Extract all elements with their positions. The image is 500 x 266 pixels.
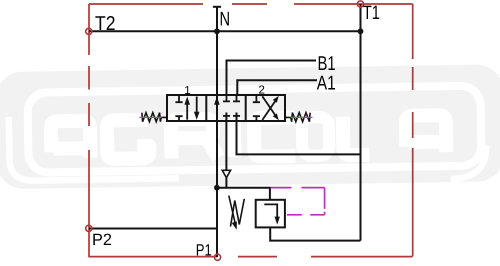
wire A work line below valve — [225, 113, 227, 188]
position 1 down arrow — [196, 97, 198, 114]
centre position blocked B top — [233, 95, 240, 101]
position 1 up arrow — [186, 103, 188, 120]
centre position blocked B bottom — [233, 115, 240, 117]
position 1 blocked port bottom — [175, 116, 182, 120]
port T1 marker — [357, 1, 363, 7]
relief valve RV1 spring — [231, 199, 245, 227]
port P1 marker — [214, 254, 220, 260]
svg-text:P2: P2 — [92, 231, 112, 249]
pilot line bottom dashes — [287, 214, 325, 216]
junction at T1 — [358, 28, 364, 34]
valve V1 divider right — [245, 95, 247, 121]
red enclosure border top — [89, 3, 413, 5]
relief valve RV1 outlet to tank — [270, 227, 360, 240]
relief valve RV1 body — [256, 200, 285, 228]
position 2 cross arrow falling — [262, 96, 276, 116]
watermark letter A2 — [406, 115, 447, 153]
red enclosure border bottom — [89, 256, 413, 258]
watermark letter L — [343, 116, 370, 155]
relief valve RV1 internal flow arrow — [264, 204, 277, 217]
watermark letter R — [171, 119, 219, 159]
position 1 blocked port top — [175, 96, 182, 103]
spring right — [285, 113, 310, 122]
junction at N — [214, 28, 220, 34]
svg-text:2: 2 — [258, 85, 264, 97]
svg-text:P1: P1 — [196, 241, 212, 259]
svg-text:T2: T2 — [95, 13, 116, 35]
red enclosure border right — [412, 4, 414, 256]
red enclosure border left — [88, 4, 90, 257]
valve V1 body — [167, 95, 285, 121]
wire B work line below valve to tank — [237, 113, 361, 155]
svg-text:A1: A1 — [317, 72, 336, 94]
centre position carry-over arrow — [214, 97, 220, 105]
wire P to relief valve — [217, 188, 270, 200]
centre position blocked A top — [223, 95, 230, 101]
junction P to relief — [214, 185, 220, 191]
wire N / P carry-over vertical — [216, 7, 218, 257]
wire B1 — [227, 61, 317, 96]
position 2 cross arrow rising — [262, 100, 276, 120]
pilot line right vertical — [324, 188, 326, 215]
flow direction hollow arrow — [222, 170, 230, 177]
watermark outer frame — [9, 109, 487, 185]
pilot line top dashes — [271, 187, 325, 189]
wire P2 line — [89, 228, 217, 230]
spring right centreline — [291, 116, 313, 118]
watermark letter O — [302, 117, 330, 156]
wire T2-T1 tank line — [89, 30, 361, 32]
wire A1 — [237, 80, 317, 95]
position 2 blocked port top — [253, 96, 260, 103]
port P2 marker — [86, 225, 92, 231]
centre position blocked A bottom — [223, 115, 230, 117]
watermark band — [0, 64, 500, 189]
wire T1 vertical — [360, 4, 362, 241]
watermark letter C — [254, 117, 296, 156]
spring left — [142, 113, 167, 122]
svg-text:1: 1 — [184, 85, 190, 97]
relief valve RV1 adjust arrow — [229, 196, 235, 223]
valve V1 divider left — [205, 95, 207, 121]
port T2 marker — [86, 28, 92, 34]
position 2 blocked port bottom — [253, 116, 260, 120]
watermark letter A — [51, 121, 91, 159]
watermark letter I — [227, 118, 242, 156]
svg-text:N: N — [220, 9, 231, 31]
spring left centreline — [140, 116, 162, 118]
watermark letter G — [107, 120, 150, 159]
node N cap — [213, 6, 221, 8]
svg-text:T1: T1 — [363, 2, 380, 24]
watermark frame — [27, 86, 481, 173]
